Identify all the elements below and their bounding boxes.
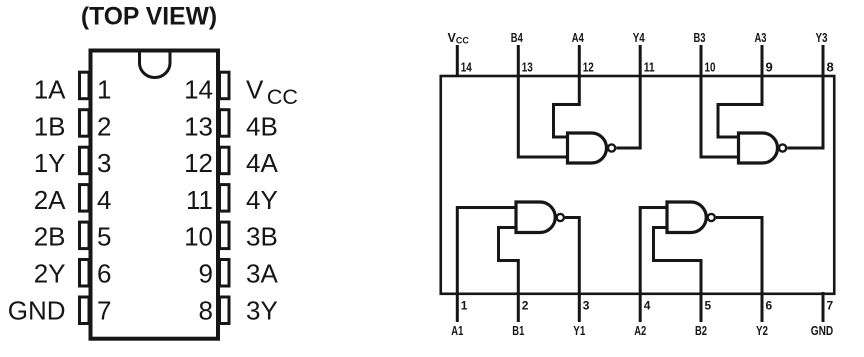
pin 1 tab [80, 72, 90, 99]
svg-text:1A: 1A [34, 75, 66, 105]
svg-text:3A: 3A [246, 259, 278, 289]
wire A1 pin 1 to gate 1 upper input [457, 208, 516, 323]
svg-text:A4: A4 [572, 31, 584, 45]
svg-text:6: 6 [97, 259, 111, 289]
wire B1 pin 2 to gate 1 lower input [499, 228, 519, 323]
DIP package body outline [91, 51, 219, 339]
svg-text:4A: 4A [246, 148, 278, 178]
svg-text:14: 14 [184, 75, 213, 105]
svg-text:5: 5 [705, 299, 712, 313]
wire GND pin 7 stub [822, 292, 825, 322]
NAND gate 3 (pins 9,10 -> 8) [739, 133, 778, 163]
svg-text:(TOP VIEW): (TOP VIEW) [81, 4, 217, 31]
svg-text:4: 4 [644, 299, 651, 313]
svg-text:3Y: 3Y [246, 295, 278, 325]
svg-text:B3: B3 [694, 31, 706, 45]
svg-text:GND: GND [811, 324, 834, 338]
svg-text:8: 8 [199, 295, 213, 325]
pin 4 tab [80, 185, 90, 212]
svg-text:6: 6 [766, 299, 773, 313]
pin 8 tab [220, 297, 230, 324]
wire VCC pin 14 stub [456, 45, 459, 77]
svg-text:2B: 2B [34, 222, 66, 252]
svg-text:Y4: Y4 [633, 31, 645, 45]
svg-text:8: 8 [827, 60, 834, 75]
svg-text:11: 11 [186, 185, 213, 215]
svg-text:1: 1 [97, 75, 111, 105]
svg-text:11: 11 [644, 60, 655, 75]
wire A2 pin 4 to gate 2 upper input [640, 208, 667, 323]
gate 3 output bubble [779, 144, 786, 151]
svg-text:3B: 3B [246, 222, 278, 252]
wire Y1 pin 3 from gate 1 output bubble [565, 218, 579, 323]
svg-text:7: 7 [97, 295, 111, 325]
svg-text:4: 4 [97, 185, 111, 215]
logic diagram boundary box [441, 76, 835, 294]
svg-text:B4: B4 [511, 31, 523, 45]
svg-text:13: 13 [522, 60, 533, 75]
svg-text:3: 3 [97, 148, 111, 178]
pin 10 tab [220, 222, 230, 249]
svg-text:12: 12 [583, 60, 594, 75]
svg-text:7: 7 [827, 299, 834, 313]
svg-text:Y1: Y1 [573, 324, 585, 338]
wire B4 pin 13 to gate 4 lower input [518, 45, 567, 157]
wire A4 pin 12 to gate 4 upper input [554, 45, 580, 137]
svg-text:VCC: VCC [246, 75, 298, 110]
svg-text:3: 3 [583, 299, 590, 313]
svg-text:A2: A2 [634, 324, 646, 338]
svg-text:9: 9 [199, 259, 213, 289]
svg-text:1B: 1B [34, 111, 66, 141]
svg-text:VCC: VCC [448, 31, 470, 46]
NAND gate 1 (pins 1,2 -> 3) [516, 202, 555, 233]
svg-text:1Y: 1Y [34, 148, 66, 178]
pin 11 tab [220, 185, 230, 212]
svg-text:5: 5 [97, 222, 111, 252]
pin 13 tab [220, 110, 230, 137]
pin 14 tab [220, 72, 230, 99]
pin 2 tab [80, 110, 90, 137]
NAND gate 4 (pins 12,13 -> 11) [568, 133, 607, 163]
svg-text:Y2: Y2 [756, 324, 768, 338]
gate 2 output bubble [708, 214, 715, 221]
svg-text:GND: GND [8, 295, 66, 325]
svg-text:2A: 2A [34, 185, 66, 215]
svg-text:13: 13 [184, 111, 213, 141]
wire Y3 pin 8 from gate 3 output bubble [787, 45, 823, 148]
svg-text:A1: A1 [451, 324, 463, 338]
gate 1 output bubble [557, 214, 564, 221]
svg-text:B1: B1 [512, 324, 524, 338]
svg-text:B2: B2 [695, 324, 707, 338]
svg-text:10: 10 [184, 222, 213, 252]
gate 4 output bubble [608, 144, 615, 151]
wire B3 pin 10 to gate 3 lower input [701, 45, 739, 157]
svg-text:12: 12 [184, 148, 213, 178]
svg-text:14: 14 [461, 60, 473, 75]
svg-text:9: 9 [766, 60, 773, 75]
index notch [140, 52, 171, 78]
wire Y2 pin 6 from gate 2 output bubble [716, 218, 762, 323]
svg-text:A3: A3 [755, 31, 767, 45]
NAND gate 2 (pins 4,5 -> 6) [667, 202, 706, 233]
svg-text:10: 10 [705, 60, 716, 75]
svg-text:2Y: 2Y [34, 259, 66, 289]
pin 7 tab [80, 297, 90, 324]
svg-text:4Y: 4Y [246, 185, 278, 215]
svg-text:2: 2 [97, 111, 111, 141]
wire B2 pin 5 to gate 2 lower input [654, 228, 702, 323]
pin 9 tab [220, 260, 230, 287]
svg-text:2: 2 [522, 299, 529, 313]
pin 5 tab [80, 222, 90, 249]
pin 6 tab [80, 260, 90, 287]
wire Y4 pin 11 from gate 4 output bubble [616, 45, 640, 148]
svg-text:4B: 4B [246, 111, 278, 141]
svg-text:Y3: Y3 [816, 31, 828, 45]
svg-text:1: 1 [461, 299, 468, 313]
pin 3 tab [80, 147, 90, 174]
pin 12 tab [220, 147, 230, 174]
wire A3 pin 9 to gate 3 upper input [718, 45, 762, 137]
